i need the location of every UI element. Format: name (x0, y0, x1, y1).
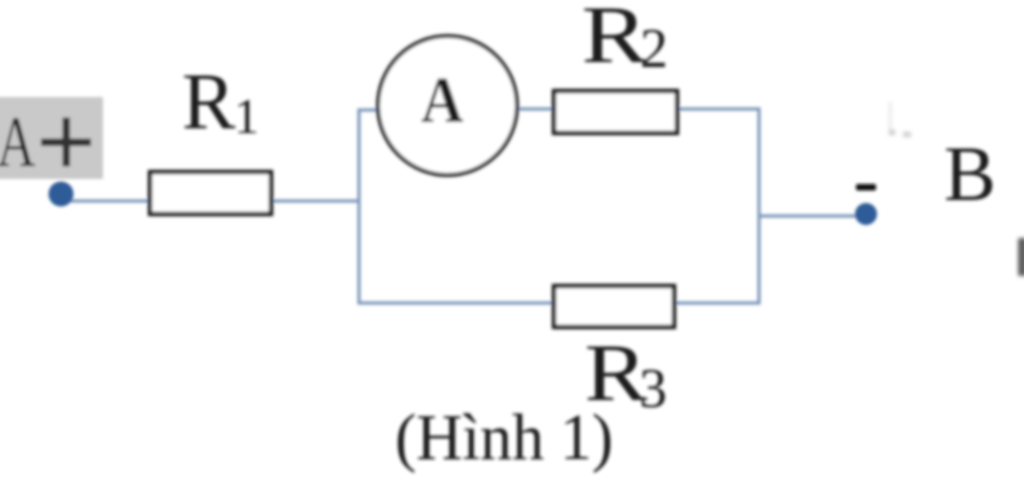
svg-text:R: R (582, 0, 648, 80)
svg-text:R: R (182, 58, 236, 146)
svg-text:(Hình 1): (Hình 1) (395, 401, 613, 474)
svg-text:B: B (944, 130, 996, 217)
svg-text:2: 2 (640, 18, 668, 80)
svg-text:1: 1 (234, 88, 259, 144)
svg-text:A: A (421, 63, 463, 137)
svg-text:A: A (0, 102, 36, 182)
svg-text:3: 3 (639, 358, 667, 420)
